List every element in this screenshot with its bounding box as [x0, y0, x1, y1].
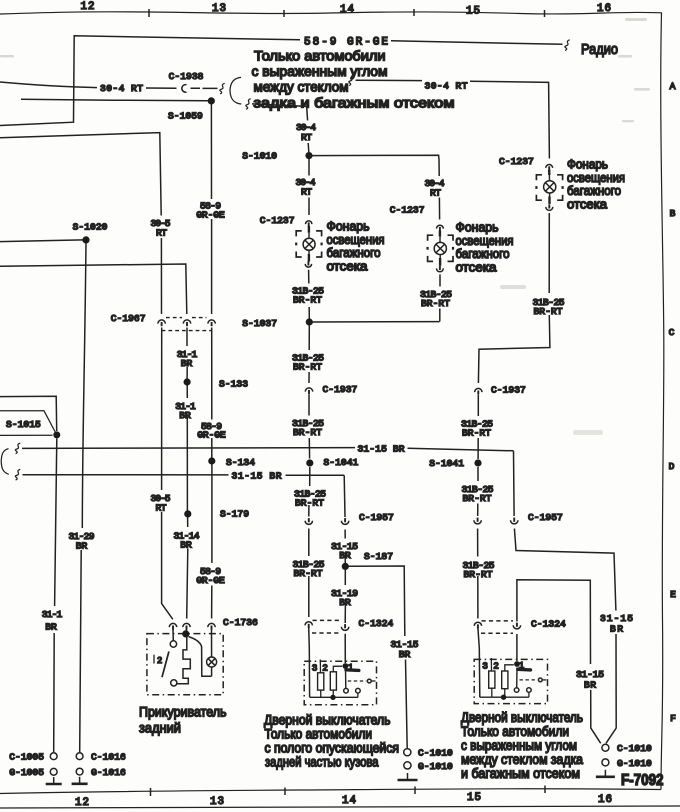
- svg-text:с выраженным углом: с выраженным углом: [252, 64, 388, 79]
- connector C-1010 (right): [602, 744, 609, 751]
- svg-text:задний: задний: [139, 721, 181, 736]
- svg-text:с выраженным углом: с выраженным углом: [461, 738, 577, 753]
- svg-text:31-15 BR: 31-15 BR: [358, 443, 405, 454]
- wire break squiggle bus 1: [15, 443, 20, 454]
- connector C-1324 (left, female half): [305, 622, 312, 626]
- svg-text:C: C: [669, 327, 675, 338]
- node S-1010: [305, 152, 312, 159]
- svg-text:BR-RT: BR-RT: [464, 569, 493, 580]
- lamp 1 dashed housing: [296, 231, 302, 237]
- wire 31-1/31-14 column from left edge: [0, 264, 188, 619]
- connector C-1957 (right pair right half): [511, 520, 518, 524]
- svg-text:с полого опускающейся: с полого опускающейся: [265, 741, 400, 756]
- wire 31-29 BR column (S-1020 to C-1016): [80, 243, 86, 752]
- connector C-1324 dashed link (switch 2): [481, 621, 513, 633]
- svg-text:A: A: [670, 81, 676, 92]
- svg-text:BR-RT: BR-RT: [294, 568, 323, 579]
- wire from left edge to S-1020: [0, 240, 83, 242]
- scan artifacts (faint): [0, 18, 650, 435]
- svg-text:RT: RT: [301, 132, 312, 143]
- door switch 2 fixed contact lead: [528, 692, 530, 697]
- door switch 1 pin 2 lead: [319, 660, 321, 673]
- svg-text:12: 12: [75, 797, 89, 809]
- svg-text:Только автомобили: Только автомобили: [461, 724, 569, 739]
- svg-text:C-1736: C-1736: [223, 617, 258, 628]
- door switch 1 pin 3 lead: [308, 627, 311, 697]
- svg-text:15: 15: [467, 792, 481, 804]
- connector C-1957 (right pair left half): [474, 520, 481, 524]
- svg-text:S-187: S-187: [364, 551, 393, 562]
- door switch 2 plunger lever: [518, 668, 531, 672]
- connector C-1736 pins: [169, 623, 176, 627]
- door switch 2 resistor B bottom lead: [504, 689, 506, 698]
- callout flag S-1015: [0, 411, 56, 436]
- svg-text:F: F: [670, 713, 676, 724]
- svg-text:3: 3: [312, 663, 318, 674]
- svg-text:31-15: 31-15: [600, 613, 633, 624]
- svg-text:RT: RT: [156, 227, 167, 238]
- svg-text:58-9 GR-GE: 58-9 GR-GE: [304, 37, 388, 49]
- wire 30-4 RT brace top branch to lamp 3: [356, 80, 550, 158]
- svg-text:G-1005: G-1005: [9, 767, 44, 778]
- svg-text:RT: RT: [301, 186, 312, 197]
- svg-text:S-134: S-134: [226, 457, 255, 468]
- node S-1059: [208, 97, 215, 104]
- door switch 1 resistor A: [318, 673, 324, 690]
- connector C-1324 (right, male half): [341, 627, 348, 631]
- door switch 1 bottom bus: [310, 696, 358, 698]
- connector C-1237 (lamp 1): [306, 221, 312, 224]
- svg-text:16: 16: [598, 794, 612, 806]
- wire 31B-25 column right: [477, 395, 480, 619]
- svg-text:между стеклом: между стеклом: [254, 80, 349, 95]
- wire out of lamp 2: [439, 255, 441, 258]
- svg-text:12: 12: [81, 1, 95, 13]
- door switch 2 pin 2 lead: [490, 658, 492, 671]
- door switch 1 resistor B: [330, 672, 336, 690]
- svg-text:RT: RT: [430, 187, 441, 198]
- connector below lamp 3: [546, 207, 553, 211]
- svg-text:C-1324: C-1324: [531, 618, 566, 629]
- svg-text:BR: BR: [181, 358, 193, 369]
- door switch 1 resistor A bottom lead: [320, 690, 322, 697]
- svg-text:C-1938: C-1938: [169, 71, 204, 82]
- svg-text:C-1005: C-1005: [9, 752, 44, 763]
- svg-text:BR-RT: BR-RT: [295, 498, 324, 509]
- door switch 2 fixed contact: [527, 688, 532, 693]
- door switch 2 resistor B: [502, 671, 508, 689]
- wire corner into S-1015 column: [0, 396, 57, 431]
- node S-187: [342, 563, 349, 570]
- door switch 2 resistor A: [489, 671, 495, 688]
- door switch 2 plunger dashed travel: [520, 679, 538, 681]
- door switch 1 pin 1 junction: [343, 663, 349, 669]
- node S-133: [184, 378, 191, 385]
- connector below lamp 2: [437, 268, 444, 271]
- wire bus1 corner down through C-1957: [514, 451, 617, 744]
- ground G-1016: [76, 768, 83, 775]
- wire out of lamp 1: [308, 250, 310, 254]
- ground G-1005: [50, 768, 57, 775]
- wire into lamp 2: [439, 231, 441, 237]
- svg-text:и багажным отсеком: и багажным отсеком: [461, 766, 580, 781]
- wire into lamp 1: [308, 226, 310, 233]
- svg-text:BR: BR: [339, 550, 351, 561]
- svg-text:BR-RT: BR-RT: [421, 298, 450, 309]
- svg-text:S-179: S-179: [220, 509, 249, 520]
- svg-text:S-1015: S-1015: [6, 419, 41, 430]
- wire 31-1 BR column (S-1015 to C-1005): [54, 438, 57, 752]
- svg-text:14: 14: [342, 795, 356, 807]
- door switch 2 resistor B top link: [505, 665, 514, 671]
- wire 58-9 to radio (left stub and corner): [0, 36, 563, 126]
- svg-text:30-4 RT: 30-4 RT: [100, 83, 143, 94]
- door switch 1 pin 1 lead: [344, 634, 346, 663]
- svg-text:3: 3: [482, 661, 488, 672]
- svg-text:C-1016: C-1016: [91, 752, 126, 763]
- svg-text:15: 15: [466, 6, 480, 18]
- svg-text:13: 13: [210, 796, 224, 808]
- svg-text:G-1010: G-1010: [617, 758, 652, 769]
- door switch 2 bottom bus: [480, 696, 529, 698]
- svg-text:31-15: 31-15: [576, 669, 604, 680]
- connector below lamp 1: [305, 264, 311, 267]
- wire 31-15 BR bus 1: [22, 448, 514, 451]
- lighter lamp return curve from junction: [189, 637, 212, 677]
- node S-179: [184, 510, 191, 517]
- svg-text:C-1957: C-1957: [359, 512, 394, 523]
- svg-text:C-1937: C-1937: [491, 384, 526, 395]
- ground G-1010 (right): [602, 759, 609, 766]
- wire switch2 pin1 riser to C-1010 right: [517, 580, 601, 744]
- wire lamp2 bottom to S-1037: [312, 321, 440, 323]
- door switch 2 pin 1 junction: [514, 661, 520, 667]
- connector C-1324 (switch 2, female half): [474, 622, 481, 626]
- svg-text:BR: BR: [339, 597, 351, 608]
- ground G-1010 (center): [404, 762, 411, 769]
- svg-text:Только автомобили: Только автомобили: [254, 49, 386, 64]
- wire 30-4 RT brace bottom branch to S-1010: [252, 104, 309, 152]
- page bottom border lower line: [0, 806, 680, 808]
- svg-text:31-15 BR: 31-15 BR: [232, 471, 282, 482]
- svg-text:GR-GE: GR-GE: [197, 430, 226, 441]
- door switch 2 dash-dot housing: [474, 659, 547, 703]
- svg-text:F-7092: F-7092: [621, 772, 664, 789]
- lighter internal junction: [182, 630, 189, 637]
- page bottom border upper line: [0, 789, 661, 794]
- connector C-1324 (switch 2, male half): [513, 625, 520, 629]
- page top border line: [0, 12, 662, 14]
- svg-text:BR-RT: BR-RT: [534, 306, 563, 317]
- svg-text:C-1237: C-1237: [499, 156, 534, 167]
- svg-text:13: 13: [212, 3, 226, 15]
- node S-1015 junction: [53, 431, 60, 438]
- svg-text:Только автомобили: Только автомобили: [265, 727, 373, 742]
- door switch 1 fixed contact lead: [357, 693, 359, 697]
- connector C-1937 (right): [475, 388, 482, 392]
- svg-text:2: 2: [157, 656, 162, 666]
- node S-1037: [306, 318, 313, 325]
- door switch 1 dash-dot housing: [304, 661, 376, 705]
- svg-text:C-1237: C-1237: [260, 215, 295, 226]
- brace splitting 30-4 RT: [230, 77, 241, 104]
- svg-text:BR: BR: [76, 540, 88, 551]
- door switch 1 fixed contact: [356, 688, 361, 693]
- wire lamp2 column upper: [438, 159, 441, 220]
- node S-1041 (right): [474, 459, 481, 466]
- svg-text:C-1937: C-1937: [323, 384, 358, 395]
- svg-text:BR-RT: BR-RT: [463, 493, 492, 504]
- wire lamp1 column upper: [308, 159, 310, 215]
- svg-text:BR-RT: BR-RT: [293, 362, 322, 373]
- left brace joining 31-15 wires: [1, 449, 9, 475]
- wire break squiggle on brace bottom branch: [246, 99, 251, 110]
- door switch 2 bottom junction: [501, 695, 506, 700]
- lighter switch lever: [162, 652, 169, 678]
- wire lamp2 column lower: [439, 274, 441, 321]
- svg-text:отсека: отсека: [567, 196, 608, 211]
- door switch 1 moving contact stem: [345, 669, 347, 689]
- wire S-187 branch to C-1010: [349, 566, 408, 748]
- svg-text:C-1010: C-1010: [617, 743, 652, 754]
- svg-text:14: 14: [340, 4, 354, 16]
- svg-text:D: D: [669, 461, 675, 472]
- wire into lamp 3: [548, 170, 550, 175]
- svg-text:задка и багажным отсеком: задка и багажным отсеком: [254, 96, 455, 111]
- svg-text:S-1020: S-1020: [73, 222, 108, 233]
- svg-text:BR-RT: BR-RT: [293, 427, 322, 438]
- svg-text:задней частью кузова: задней частью кузова: [265, 755, 379, 770]
- svg-text:S-1041: S-1041: [324, 457, 359, 468]
- svg-text:G-1010: G-1010: [418, 761, 453, 772]
- lamp 3 dashed housing: [536, 175, 542, 181]
- door switch 1 plunger lever: [346, 668, 359, 672]
- wire break squiggle bus 2: [15, 469, 20, 480]
- connector C-1005: [50, 753, 57, 760]
- svg-text:Прикуриватель: Прикуриватель: [139, 705, 227, 720]
- lighter heater element (zigzag): [177, 637, 190, 684]
- cigarette lighter dash-dot housing: [147, 634, 223, 695]
- wire 58-9 GR-GE column (S-1059 down): [210, 104, 213, 619]
- wire break squiggle on brace top branch: [349, 75, 354, 86]
- svg-text:C-1967: C-1967: [111, 313, 146, 324]
- svg-text:между стеклом задка: между стеклом задка: [461, 752, 583, 767]
- connector C-1938 symbol: [182, 85, 187, 93]
- svg-text:S-133: S-133: [219, 379, 248, 390]
- svg-text:S-1041: S-1041: [429, 458, 464, 469]
- svg-text:30-4 RT: 30-4 RT: [425, 80, 468, 91]
- svg-text:G-1016: G-1016: [91, 767, 126, 778]
- node S-134: [208, 457, 215, 464]
- svg-text:B: B: [670, 208, 676, 219]
- connector C-1010 (center): [404, 749, 411, 756]
- wire lamp1 column lower: [308, 270, 311, 319]
- door switch 2 pin 1 lead: [516, 634, 518, 661]
- svg-text:Радио: Радио: [581, 42, 618, 58]
- lighter switch fixed contact (top): [170, 641, 176, 647]
- wire 30-5 RT from left edge: [0, 133, 173, 620]
- svg-text:BR: BR: [180, 540, 192, 551]
- svg-text:BR: BR: [584, 680, 596, 691]
- svg-text:BR-RT: BR-RT: [293, 295, 322, 306]
- wire S-1010 to lamp 2: [309, 155, 439, 158]
- svg-text:отсека: отсека: [327, 258, 369, 273]
- door switch 1 resistor B bottom lead: [332, 690, 334, 697]
- svg-text:C-1324: C-1324: [359, 618, 394, 629]
- wire out of lamp 3: [549, 193, 551, 197]
- svg-text:S-1059: S-1059: [168, 111, 203, 122]
- door switch 2 resistor A bottom lead: [491, 688, 493, 697]
- svg-text:C-1237: C-1237: [390, 205, 425, 216]
- svg-text:2: 2: [322, 663, 328, 674]
- door switch 1 bottom junction: [330, 695, 335, 700]
- wire 30-4 RT from left edge: [0, 82, 218, 88]
- connector C-1016: [76, 753, 83, 760]
- svg-text:BR-RT: BR-RT: [462, 428, 491, 439]
- wire bus2 corner down to S-187: [344, 475, 345, 623]
- lighter switch contact (bottom): [171, 680, 177, 686]
- door switch 2 moving contact: [514, 688, 519, 693]
- wire break squiggle before brace: [220, 83, 225, 94]
- svg-text:BR: BR: [179, 410, 191, 421]
- svg-text:BR: BR: [399, 649, 411, 660]
- svg-text:Дверной выключатель: Дверной выключатель: [264, 713, 391, 728]
- lighter feed stubs into housing: [173, 630, 212, 658]
- trunk lamp 1 bulb: [303, 238, 315, 250]
- connector C-1967 (three way): [158, 320, 165, 324]
- connector C-1324 dashed link (switch 1): [312, 620, 341, 633]
- svg-text:2: 2: [493, 661, 499, 672]
- door switch 1 resistor B top link: [333, 666, 342, 672]
- connector C-1937 (left): [305, 388, 312, 392]
- svg-text:GR-GE: GR-GE: [196, 575, 225, 586]
- node S-1041 (left): [306, 459, 313, 466]
- svg-text:S-1037: S-1037: [242, 318, 277, 329]
- wire lamp3 column lower: [478, 213, 550, 383]
- connector C-1237 (lamp 2): [437, 225, 444, 228]
- trunk lamp 3 bulb: [544, 181, 556, 193]
- door switch 2 moving contact stem: [516, 668, 518, 688]
- svg-text:RT: RT: [156, 502, 167, 513]
- svg-text:BR: BR: [45, 621, 57, 632]
- door switch 1 plunger dashed travel: [348, 680, 367, 682]
- door switch 1 moving contact: [344, 688, 349, 693]
- trunk lamp 2 bulb: [434, 242, 446, 254]
- svg-text:C-1010: C-1010: [418, 748, 453, 759]
- svg-text:S-1010: S-1010: [242, 150, 277, 161]
- door switch 2 pin 3 lead: [478, 628, 480, 698]
- node S-1020: [82, 236, 89, 243]
- wire break squiggle at radio: [565, 40, 570, 51]
- wire 31B-25 column (S-1037 down): [309, 326, 310, 618]
- svg-text:31-1: 31-1: [42, 609, 63, 620]
- page right border line: [661, 13, 664, 790]
- lighter illumination bulb: [207, 657, 217, 667]
- connector C-1957 (left half): [305, 521, 312, 525]
- lighter switch pin 2 tick: [153, 655, 155, 664]
- svg-text:BR: BR: [610, 624, 623, 635]
- svg-text:Дверной выключатель: Дверной выключатель: [461, 710, 583, 725]
- wire from left edge to S-1059: [21, 99, 209, 101]
- svg-text:16: 16: [597, 3, 611, 15]
- connector C-1957 (right half): [341, 521, 348, 525]
- lighter bulb bottom stub: [211, 667, 213, 676]
- svg-text:GR-GE: GR-GE: [196, 210, 225, 221]
- svg-text:отсека: отсека: [456, 259, 498, 274]
- connector C-1237 (lamp 3): [546, 164, 553, 167]
- svg-text:C-1957: C-1957: [528, 512, 563, 523]
- lamp 2 dashed housing: [428, 235, 434, 241]
- wire 31-15 BR bus 2: [23, 474, 345, 477]
- svg-text:E: E: [670, 589, 676, 600]
